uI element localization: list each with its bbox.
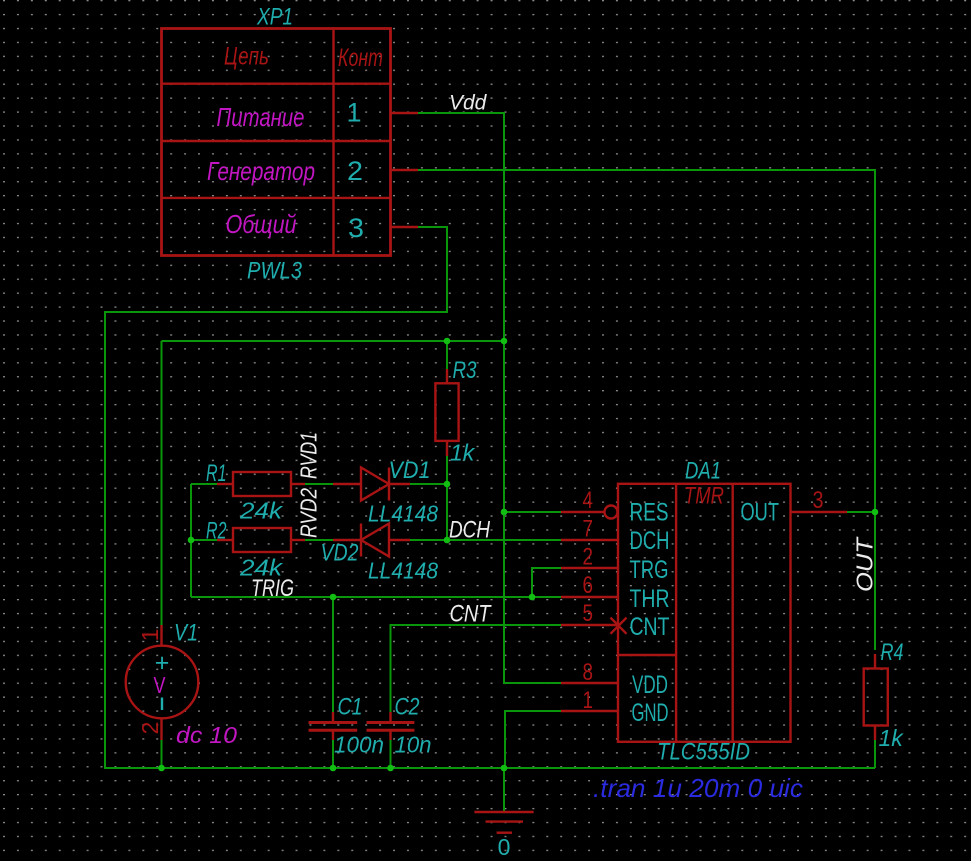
svg-text:1k: 1k bbox=[879, 725, 905, 751]
node junction ground rail bbox=[501, 765, 508, 772]
diode VD2 anode pin bbox=[389, 539, 410, 541]
svg-text:5: 5 bbox=[583, 600, 594, 627]
svg-text:Vdd: Vdd bbox=[449, 92, 488, 115]
ground symbol bar 2 bbox=[486, 820, 524, 822]
wire IC pin3 to OUT vertical bbox=[847, 511, 875, 513]
node junction Vdd/R3 bbox=[444, 338, 451, 345]
pin 7 stub (DCH) bbox=[561, 539, 618, 541]
wire R4 bottom to ground rail bbox=[874, 740, 876, 768]
wire OUT: table pin2 across and down to R4 bbox=[418, 170, 875, 650]
pin 1 stub of XP1 bbox=[391, 112, 419, 114]
resistor R1 left pin bbox=[217, 483, 233, 485]
resistor R3 body bbox=[435, 383, 458, 441]
voltage source V1 bottom pin bbox=[160, 718, 162, 740]
svg-text:TLC555ID: TLC555ID bbox=[657, 739, 750, 766]
pin 2 stub of XP1 bbox=[391, 169, 419, 171]
resistor R3 bottom pin bbox=[446, 441, 448, 456]
svg-text:OUT: OUT bbox=[852, 536, 878, 592]
svg-text:V1: V1 bbox=[174, 620, 198, 647]
svg-text:DCH: DCH bbox=[630, 527, 670, 555]
svg-text:Генератор: Генератор bbox=[207, 156, 315, 186]
svg-text:100n: 100n bbox=[334, 732, 384, 758]
svg-text:XP1: XP1 bbox=[256, 4, 293, 31]
svg-text:RES: RES bbox=[630, 499, 669, 527]
pin 5 stub (CNT) bbox=[561, 624, 618, 626]
svg-text:6: 6 bbox=[583, 572, 594, 599]
svg-text:RVD1: RVD1 bbox=[296, 432, 322, 479]
pin 1 stub (GND) bbox=[561, 710, 618, 712]
wire Vdd horizontal to V1 bbox=[162, 340, 505, 342]
wire ground: table pin3 down-left-down, bottom rail bbox=[105, 227, 875, 768]
resistor R2 right pin bbox=[291, 539, 305, 541]
diode VD1 anode pin bbox=[333, 483, 361, 485]
node junction C1 rail bbox=[330, 765, 337, 772]
pin 4 inversion bubble bbox=[605, 506, 618, 519]
svg-text:CNT: CNT bbox=[450, 601, 493, 628]
wire TRIG left vertical bbox=[190, 484, 192, 597]
node junction Vdd vertical bbox=[501, 338, 508, 345]
capacitor C1 bottom plate bbox=[309, 729, 358, 732]
svg-text:DA1: DA1 bbox=[685, 458, 721, 485]
wire V1 minus to rail bbox=[161, 740, 163, 768]
pin 2 stub (TRG) bbox=[561, 567, 618, 569]
svg-text:THR: THR bbox=[630, 585, 670, 613]
svg-text:dc 10: dc 10 bbox=[176, 722, 237, 748]
svg-text:C2: C2 bbox=[395, 694, 420, 721]
wire R1 left stub bbox=[191, 483, 217, 485]
svg-text:C1: C1 bbox=[338, 694, 363, 721]
svg-text:Цепь: Цепь bbox=[224, 43, 269, 71]
svg-text:2: 2 bbox=[583, 544, 594, 571]
svg-text:2: 2 bbox=[347, 156, 363, 186]
svg-text:VD2: VD2 bbox=[321, 540, 359, 567]
svg-text:CNT: CNT bbox=[630, 613, 670, 641]
node junction TRG branch bbox=[529, 594, 536, 601]
svg-text:LL4148: LL4148 bbox=[368, 558, 438, 584]
diode VD2 triangle bbox=[361, 524, 389, 557]
wire C1 bottom bbox=[332, 740, 334, 768]
svg-text:Общий: Общий bbox=[226, 209, 297, 239]
wire RES pin to Vdd line bbox=[504, 511, 561, 513]
ground symbol bar 1 bbox=[474, 811, 533, 813]
svg-text:.tran 1u 20m 0 uic: .tran 1u 20m 0 uic bbox=[593, 773, 803, 803]
svg-text:GND: GND bbox=[632, 699, 669, 727]
diode VD1 cathode bar bbox=[388, 468, 390, 501]
wire ground symbol stem bbox=[503, 768, 505, 811]
svg-text:3: 3 bbox=[813, 487, 824, 514]
svg-text:TRIG: TRIG bbox=[251, 575, 294, 602]
svg-text:VD1: VD1 bbox=[389, 457, 431, 484]
ground symbol bar 3 bbox=[497, 832, 512, 834]
svg-text:Конт: Конт bbox=[338, 44, 383, 72]
pin 3 stub of XP1 bbox=[391, 226, 419, 228]
svg-text:0: 0 bbox=[498, 834, 511, 860]
resistor R2 left pin bbox=[217, 539, 233, 541]
node junction R2 left bbox=[188, 537, 195, 544]
pin 5 no-connect X bbox=[611, 618, 627, 634]
capacitor C1 bottom pin bbox=[332, 731, 334, 740]
svg-text:1: 1 bbox=[346, 98, 361, 128]
capacitor C2 top pin bbox=[389, 712, 391, 722]
svg-text:3: 3 bbox=[348, 213, 364, 243]
node junction C2 rail bbox=[387, 765, 394, 772]
svg-text:Питание: Питание bbox=[217, 102, 305, 132]
svg-text:7: 7 bbox=[583, 516, 594, 543]
pin 8 stub (VDD) bbox=[561, 682, 618, 684]
wire R3 bottom to VD1 junction bbox=[446, 456, 448, 540]
svg-text:R1: R1 bbox=[206, 460, 227, 487]
connector XP1 table outline bbox=[162, 29, 391, 256]
node junction VD1 cathode bbox=[444, 481, 451, 488]
svg-text:V: V bbox=[154, 672, 167, 698]
node junction V1 minus rail bbox=[158, 765, 165, 772]
svg-text:1: 1 bbox=[137, 629, 163, 642]
resistor R3 top pin bbox=[446, 369, 448, 383]
diode VD2 cathode pin bbox=[333, 539, 361, 541]
svg-text:VDD: VDD bbox=[632, 671, 668, 699]
connector XP1 row line 3 bbox=[162, 197, 391, 199]
svg-text:2: 2 bbox=[137, 722, 163, 735]
capacitor C1 top plate bbox=[309, 721, 358, 724]
svg-text:8: 8 bbox=[583, 659, 594, 686]
svg-text:1k: 1k bbox=[450, 440, 476, 466]
wire DCH horizontal bbox=[447, 539, 561, 541]
resistor R4 bottom pin bbox=[874, 726, 876, 741]
voltage source V1 top pin bbox=[160, 625, 162, 646]
IC DA1 box outline bbox=[618, 484, 791, 742]
pin 4 stub (RES) bbox=[561, 511, 604, 513]
diode VD1 cathode pin bbox=[389, 483, 410, 485]
svg-text:R2: R2 bbox=[206, 518, 227, 545]
wire Vdd: table pin1 to vertical bbox=[418, 113, 561, 683]
connector XP1 row line 1 bbox=[162, 82, 391, 84]
wire V1 plus up bbox=[161, 341, 163, 625]
node junction DCH bbox=[444, 537, 451, 544]
diode VD1 triangle bbox=[361, 468, 389, 501]
wire R3 top branch bbox=[446, 341, 448, 369]
svg-text:R4: R4 bbox=[881, 639, 904, 666]
capacitor C2 top plate bbox=[367, 721, 415, 724]
node junction C1/TRIG bbox=[330, 594, 337, 601]
capacitor C2 bottom plate bbox=[367, 729, 415, 732]
wire CNT horizontal and down to C2 bbox=[391, 625, 562, 712]
svg-text:OUT: OUT bbox=[741, 499, 780, 527]
wire R2 to VD2 bbox=[305, 539, 333, 541]
resistor R2 body bbox=[233, 528, 291, 552]
svg-text:TMR: TMR bbox=[684, 483, 724, 510]
resistor R1 body bbox=[233, 472, 291, 496]
svg-text:LL4148: LL4148 bbox=[368, 501, 438, 527]
IC DA1 divider left bbox=[675, 484, 677, 742]
svg-text:10n: 10n bbox=[395, 732, 432, 758]
wire TRIG horizontal to THR bbox=[191, 596, 561, 598]
IC DA1 power separator bbox=[618, 654, 676, 656]
wire C2 bottom bbox=[390, 740, 392, 768]
svg-text:1: 1 bbox=[583, 687, 594, 714]
voltage source V1 circle bbox=[126, 646, 199, 719]
svg-text:RVD2: RVD2 bbox=[296, 488, 322, 538]
svg-text:PWL3: PWL3 bbox=[247, 258, 303, 285]
connector XP1 column divider bbox=[332, 29, 334, 256]
svg-text:TRG: TRG bbox=[630, 556, 669, 584]
resistor R1 right pin bbox=[291, 483, 305, 485]
node junction RES/Vdd bbox=[501, 509, 508, 516]
svg-text:24k: 24k bbox=[239, 498, 284, 524]
pin 6 stub (THR) bbox=[561, 596, 618, 598]
diode VD2 cathode bar bbox=[360, 524, 362, 557]
wire R2 left stub bbox=[191, 539, 217, 541]
resistor R4 body bbox=[864, 669, 888, 726]
wire VD1 cathode to junction bbox=[410, 483, 447, 485]
V1 minus bar bbox=[161, 698, 163, 711]
resistor R4 top pin bbox=[874, 654, 876, 669]
svg-text:R3: R3 bbox=[453, 357, 478, 384]
wire C1 top bbox=[332, 597, 334, 712]
node junction OUT/pin3 bbox=[872, 509, 879, 516]
wire R1 to VD1 bbox=[305, 483, 333, 485]
wire TRG branch bbox=[532, 568, 561, 597]
wire VD2 to junction bbox=[410, 539, 447, 541]
red symbol strokes bbox=[126, 29, 888, 833]
svg-text:DCH: DCH bbox=[449, 517, 491, 544]
svg-text:4: 4 bbox=[583, 487, 594, 514]
pin 3 stub (OUT) bbox=[791, 511, 848, 513]
connector XP1 row line 2 bbox=[162, 140, 391, 142]
wire GND pin of IC to rail bbox=[505, 711, 561, 768]
capacitor C1 top pin bbox=[332, 712, 334, 722]
capacitor C2 bottom pin bbox=[389, 731, 391, 740]
IC DA1 divider right bbox=[732, 484, 734, 742]
